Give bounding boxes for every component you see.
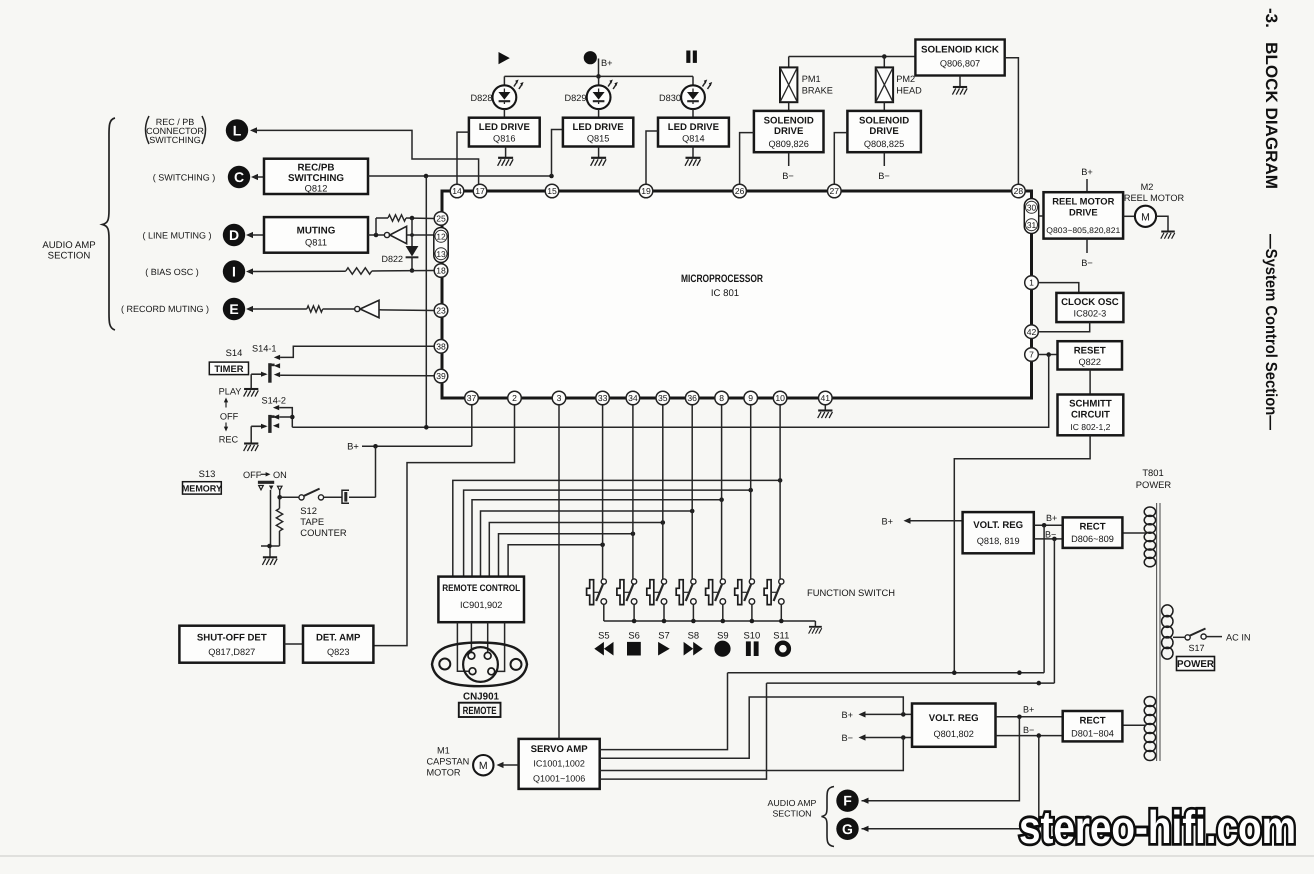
svg-text:D806~809: D806~809 <box>1071 534 1114 544</box>
svg-text:S17: S17 <box>1188 643 1204 653</box>
switch S14-1 pole <box>270 363 275 383</box>
wire D arrow <box>246 232 264 238</box>
label S6 <box>628 630 639 641</box>
svg-text:Q822: Q822 <box>1078 357 1100 367</box>
brace audio amp section left <box>103 118 116 330</box>
svg-text:30: 30 <box>1027 202 1037 212</box>
svg-text:Q818, 819: Q818, 819 <box>977 536 1020 546</box>
svg-text:HEAD: HEAD <box>896 86 922 96</box>
wire reset to schmitt <box>1089 370 1091 395</box>
svg-text:37: 37 <box>467 393 477 403</box>
wire S14-1 common <box>251 372 267 389</box>
node E <box>223 298 245 320</box>
svg-text:25: 25 <box>436 214 446 224</box>
svg-text:28: 28 <box>1014 186 1024 196</box>
wire reel drive to motor <box>1123 215 1135 217</box>
svg-text:AUDIO AMP: AUDIO AMP <box>768 798 817 808</box>
svg-text:D828: D828 <box>471 93 493 103</box>
svg-text:9: 9 <box>748 393 753 403</box>
switch S6 <box>617 405 637 621</box>
pin 9 <box>744 391 758 405</box>
wire switch common bus <box>604 619 816 624</box>
block REC/PB SWITCHING Q812 <box>264 159 368 194</box>
ground function switches <box>809 621 822 634</box>
svg-text:MEMORY: MEMORY <box>182 483 222 493</box>
svg-text:34: 34 <box>628 393 638 403</box>
svg-text:S14-2: S14-2 <box>262 396 287 406</box>
svg-text:41: 41 <box>821 393 831 403</box>
diode D822 <box>406 218 419 273</box>
wire remote bus 1 <box>453 478 783 576</box>
svg-text:S12: S12 <box>300 505 317 516</box>
wire rect D806 to winding <box>1122 532 1146 534</box>
pin 26 <box>733 184 747 198</box>
wire B- stub Q809 <box>782 152 794 181</box>
block LED DRIVE Q816 <box>469 118 540 147</box>
label S9 <box>717 630 728 641</box>
svg-text:B−: B− <box>782 171 794 181</box>
LED D830 <box>659 76 712 117</box>
label CNJ901 <box>463 692 499 703</box>
label B+ arrow lower <box>842 710 913 720</box>
svg-text:S7: S7 <box>658 630 669 641</box>
svg-text:M: M <box>479 760 488 772</box>
label (BIAS OSC) <box>145 267 199 277</box>
wire remote to connector <box>457 622 504 671</box>
label B+ reel <box>1081 167 1093 177</box>
label B- arrow lower <box>842 733 913 743</box>
pin 23 <box>434 304 448 318</box>
node L <box>226 119 248 141</box>
wire S14-2 top contact <box>279 408 294 428</box>
switch S9 <box>706 405 726 621</box>
svg-text:G: G <box>842 821 853 837</box>
ground Q815 <box>591 147 607 166</box>
svg-text:SOLENOID: SOLENOID <box>859 116 909 127</box>
svg-text:42: 42 <box>1027 327 1037 337</box>
label (RECORD MUTING) <box>121 304 209 314</box>
wire I with resistor <box>246 268 434 275</box>
switch S10 <box>735 405 755 621</box>
svg-text:IC901,902: IC901,902 <box>460 600 502 610</box>
svg-text:F: F <box>843 793 852 809</box>
svg-text:Q814: Q814 <box>682 133 704 143</box>
pin 38 <box>434 340 448 354</box>
block SERVO AMP <box>519 739 600 789</box>
svg-text:C: C <box>234 169 244 185</box>
svg-text:13: 13 <box>436 249 446 259</box>
svg-text:18: 18 <box>436 266 446 276</box>
wire rect D801 to winding <box>1122 724 1146 726</box>
svg-text:Q811: Q811 <box>305 238 327 248</box>
block VOLT REG Q801,802 <box>912 704 996 747</box>
svg-text:S14-1: S14-1 <box>252 344 277 354</box>
svg-text:B+: B+ <box>601 58 613 68</box>
wire Q812 out to pin15 net <box>368 174 554 179</box>
block RECT D806~809 <box>1063 517 1123 548</box>
svg-text:CLOCK OSC: CLOCK OSC <box>1061 297 1119 308</box>
wire S14-2 mid contact <box>279 416 292 418</box>
svg-text:( BIAS OSC ): ( BIAS OSC ) <box>145 267 199 277</box>
svg-text:LED DRIVE: LED DRIVE <box>668 122 720 133</box>
svg-text:B+: B+ <box>842 710 854 720</box>
wire S14-2 common <box>251 424 267 444</box>
svg-text:LED DRIVE: LED DRIVE <box>479 122 531 133</box>
svg-text:SECTION: SECTION <box>772 809 811 819</box>
svg-text:D830: D830 <box>659 93 681 103</box>
svg-text:COUNTER: COUNTER <box>300 527 347 538</box>
switch S17 <box>1173 629 1222 641</box>
pin 7 <box>1025 348 1039 362</box>
wire pin 3 to servo <box>558 405 560 739</box>
switch S14-2 contacts <box>273 405 279 428</box>
pin 33 <box>596 391 610 405</box>
svg-text:B−: B− <box>1023 725 1034 735</box>
arrow play up <box>224 398 228 408</box>
svg-text:12: 12 <box>436 231 446 241</box>
svg-text:VOLT. REG: VOLT. REG <box>973 520 1023 531</box>
svg-text:31: 31 <box>1027 220 1037 230</box>
svg-text:33: 33 <box>598 393 608 403</box>
svg-text:SOLENOID KICK: SOLENOID KICK <box>921 45 999 56</box>
wire S14-2 line to pin7 node <box>292 355 1048 430</box>
wire bus x426 down <box>425 176 427 427</box>
label (LINE MUTING) <box>143 230 212 240</box>
LED D828 <box>471 76 524 117</box>
switch S14-2 pole <box>270 415 275 433</box>
ground S14-2 <box>244 444 259 452</box>
svg-text:L: L <box>233 122 242 138</box>
wire servo B+ out1 <box>600 673 728 750</box>
ground Q814 <box>685 147 701 166</box>
motor M1 <box>473 755 493 775</box>
node C <box>228 166 250 188</box>
wire pin 1 to clock osc <box>1038 283 1079 293</box>
pin 19 <box>639 184 653 198</box>
svg-text:( RECORD MUTING ): ( RECORD MUTING ) <box>121 304 209 314</box>
svg-text:S6: S6 <box>628 630 639 641</box>
switch S5 <box>587 405 607 621</box>
wire pin 2 to det amp <box>373 405 514 646</box>
margin title -3. BLOCK DIAGRAM <box>1262 8 1280 189</box>
ground S14-1 <box>244 389 259 397</box>
wire remote bus 4 <box>481 509 695 577</box>
svg-text:S8: S8 <box>688 630 699 641</box>
page edge line <box>0 855 1314 857</box>
icon stop S6 <box>627 642 641 656</box>
svg-text:DET. AMP: DET. AMP <box>316 633 361 644</box>
wire B- net horizontal <box>767 681 1055 686</box>
block SOLENOID DRIVE Q808,825 <box>847 111 921 152</box>
icon eject S11 <box>777 643 789 655</box>
wire remote bus 3 <box>472 497 724 576</box>
ground S13 <box>262 544 277 565</box>
label S13 <box>199 468 216 479</box>
svg-text:CAPSTAN: CAPSTAN <box>427 757 470 767</box>
svg-text:POWER: POWER <box>1177 659 1214 670</box>
icon record S9 <box>714 641 730 657</box>
svg-text:14: 14 <box>452 186 462 196</box>
svg-text:Q803~805,820,821: Q803~805,820,821 <box>1046 226 1121 235</box>
wire pins 30-31 to reel drive <box>1039 215 1044 217</box>
wire remote bus 2 <box>464 488 753 577</box>
svg-text:VOLT. REG: VOLT. REG <box>929 713 979 724</box>
svg-text:BRAKE: BRAKE <box>802 86 833 96</box>
pin 15 <box>545 184 559 198</box>
pins 30-31 capsule <box>1024 199 1038 234</box>
pin 18 <box>434 264 448 278</box>
svg-text:Q809,826: Q809,826 <box>769 139 809 149</box>
wire servo to capstan motor <box>497 762 519 768</box>
svg-text:I: I <box>232 264 236 280</box>
block LED DRIVE Q815 <box>563 118 633 147</box>
svg-text:B−: B− <box>1045 530 1056 540</box>
svg-text:Q815: Q815 <box>587 133 609 143</box>
label AUDIO AMP SECTION bottom <box>768 798 817 819</box>
svg-text:M1: M1 <box>437 746 450 756</box>
wire schmitt to B+ net <box>954 435 1090 672</box>
svg-text:CIRCUIT: CIRCUIT <box>1071 410 1110 421</box>
svg-text:27: 27 <box>830 186 840 196</box>
label M1 CAPSTAN MOTOR <box>427 746 470 778</box>
wire S14-1 to pin 39 <box>280 374 434 377</box>
pin 34 <box>626 391 640 405</box>
svg-text:SHUT-OFF DET: SHUT-OFF DET <box>197 633 267 644</box>
icon ff S8 <box>684 642 703 656</box>
solenoid PM2 HEAD <box>876 57 922 111</box>
switch S11 <box>764 405 784 621</box>
wire S13 pole down <box>270 490 272 546</box>
node G <box>836 818 858 840</box>
svg-text:IC 801: IC 801 <box>711 288 739 299</box>
label S14 <box>226 347 243 358</box>
wire pin 7 to reset <box>1038 352 1057 357</box>
pin 27 <box>828 184 842 198</box>
svg-text:D801~804: D801~804 <box>1071 729 1114 739</box>
svg-text:REC/PB: REC/PB <box>297 163 334 174</box>
pin 3 <box>552 391 566 405</box>
winding primary <box>1162 605 1173 659</box>
svg-text:Q812: Q812 <box>305 184 328 194</box>
watermark stereo-hifi.com <box>1019 801 1296 853</box>
switch S13 <box>258 482 282 490</box>
label S12 TAPE COUNTER <box>300 505 347 538</box>
svg-text:S10: S10 <box>744 630 761 641</box>
connector CNJ901 <box>432 643 527 687</box>
svg-text:SOLENOID: SOLENOID <box>764 116 814 127</box>
svg-text:E: E <box>229 301 238 317</box>
svg-text:1: 1 <box>1029 278 1034 288</box>
wire LED feed <box>504 75 693 77</box>
pin 17 <box>473 184 487 198</box>
wire to pin 23 <box>379 309 434 312</box>
block VOLT REG Q818,819 <box>963 512 1034 553</box>
label FUNCTION SWITCH <box>807 587 895 598</box>
pins 12-13 capsule <box>434 228 448 263</box>
node D <box>223 224 245 246</box>
wire servo out2 <box>600 697 904 758</box>
icon rewind S5 <box>594 642 613 656</box>
wire inverter to pins 12-13 <box>407 233 434 237</box>
svg-text:REEL MOTOR: REEL MOTOR <box>1124 193 1185 203</box>
block LED DRIVE Q814 <box>658 118 729 147</box>
label B+ top <box>601 58 613 68</box>
svg-text:MUTING: MUTING <box>297 226 336 237</box>
svg-text:B−: B− <box>1081 258 1093 268</box>
pin 36 <box>685 391 699 405</box>
block SOLENOID KICK Q806,807 <box>915 40 1004 76</box>
block SCHMITT CIRCUIT IC802-1,2 <box>1058 395 1124 436</box>
svg-text:S5: S5 <box>598 630 609 641</box>
transformer core <box>1157 503 1160 761</box>
wire det to amp <box>284 643 303 645</box>
svg-text:D: D <box>229 227 239 243</box>
svg-text:M2: M2 <box>1141 182 1154 192</box>
label B+ west arrow <box>882 517 963 527</box>
wire L to pin 17 <box>250 127 479 184</box>
svg-text:IC1001,1002: IC1001,1002 <box>533 759 585 769</box>
switch S8 <box>676 405 696 621</box>
svg-text:PM1: PM1 <box>802 74 821 84</box>
pin 14 <box>450 184 464 198</box>
label S14-2 <box>262 396 287 406</box>
svg-text:FUNCTION SWITCH: FUNCTION SWITCH <box>807 587 895 598</box>
svg-text:DRIVE: DRIVE <box>1069 207 1098 218</box>
svg-text:B+: B+ <box>1081 167 1093 177</box>
svg-text:26: 26 <box>735 186 745 196</box>
label T801 POWER <box>1136 467 1172 490</box>
label S11 <box>773 630 789 641</box>
wire E with resistor <box>246 306 355 312</box>
svg-text:PLAY: PLAY <box>219 387 242 397</box>
ground motor M2 <box>1156 216 1175 238</box>
LED D829 <box>565 76 618 117</box>
svg-text:AUDIO AMP: AUDIO AMP <box>42 240 95 251</box>
svg-text:3: 3 <box>557 393 562 403</box>
svg-text:-3. BLOCK DIAGRAM: -3. BLOCK DIAGRAM <box>1262 8 1280 189</box>
wire S14-1 to pin 38 <box>280 346 434 357</box>
winding secondary bottom <box>1144 696 1155 760</box>
margin title System Control Section <box>1262 234 1279 430</box>
svg-text:( SWITCHING ): ( SWITCHING ) <box>153 173 216 183</box>
wire B+ net vertical <box>1043 525 1045 672</box>
svg-text:D822: D822 <box>381 254 403 264</box>
resistor S13 <box>261 497 283 546</box>
wire B+ down to S12 <box>375 446 377 497</box>
label S17 <box>1188 643 1204 653</box>
svg-text:7: 7 <box>1029 350 1034 360</box>
label OFF <box>220 412 239 422</box>
counter coil symbol <box>342 490 376 503</box>
svg-text:IC 802-1,2: IC 802-1,2 <box>1070 422 1110 432</box>
solenoid PM1 BRAKE <box>780 57 833 111</box>
wire B+ net horizontal <box>728 670 1045 675</box>
svg-text:CNJ901: CNJ901 <box>463 692 499 703</box>
label REMOTE boxed <box>459 703 501 717</box>
svg-text:AC IN: AC IN <box>1226 633 1251 643</box>
svg-text:REMOTE: REMOTE <box>463 705 497 717</box>
svg-text:TAPE: TAPE <box>300 516 324 527</box>
wire servo out3 <box>600 738 904 771</box>
svg-text:SWITCHING: SWITCHING <box>149 135 201 145</box>
svg-text:REC: REC <box>219 435 239 445</box>
svg-text:M: M <box>1141 211 1150 223</box>
wire B+ stub <box>596 59 601 79</box>
svg-text:19: 19 <box>641 186 651 196</box>
switch S12 <box>280 489 342 500</box>
label S10 <box>744 630 761 641</box>
brace audio amp bottom <box>822 787 835 847</box>
label S8 <box>688 630 699 641</box>
svg-text:B+: B+ <box>347 441 359 452</box>
pin 35 <box>656 391 670 405</box>
wire pin 27 to drive <box>834 133 847 185</box>
svg-text:10: 10 <box>775 393 785 403</box>
svg-text:SCHMITT: SCHMITT <box>1069 399 1112 410</box>
winding secondary top <box>1144 507 1155 567</box>
block CLOCK OSC IC802-3 <box>1056 293 1123 322</box>
svg-text:15: 15 <box>547 186 557 196</box>
wire B+ to pin 37 <box>362 444 472 449</box>
wire servo B- out4 <box>600 683 767 779</box>
svg-text:RESET: RESET <box>1074 346 1106 357</box>
label POWER boxed <box>1177 657 1215 671</box>
svg-text:36: 36 <box>687 393 697 403</box>
motor M2 <box>1124 182 1185 227</box>
resistor R pin25 <box>376 215 434 235</box>
wire S13 contact down <box>277 491 282 500</box>
svg-text:B+: B+ <box>1023 705 1034 715</box>
svg-text:—System Control Section—: —System Control Section— <box>1262 234 1279 430</box>
pin 42 <box>1025 325 1039 339</box>
svg-text:LED DRIVE: LED DRIVE <box>573 122 625 133</box>
svg-text:S9: S9 <box>717 630 728 641</box>
svg-text:DRIVE: DRIVE <box>869 126 899 137</box>
svg-text:ON: ON <box>273 470 287 480</box>
svg-text:OFF: OFF <box>243 470 262 480</box>
wire kick to pin 28 <box>1005 58 1019 185</box>
label AC IN <box>1226 633 1251 643</box>
svg-text:REEL MOTOR: REEL MOTOR <box>1052 196 1114 207</box>
label (SWITCHING) <box>153 173 216 183</box>
block DET AMP Q823 <box>303 626 373 663</box>
svg-text:Q801,802: Q801,802 <box>934 729 974 739</box>
svg-text:Q816: Q816 <box>493 133 515 143</box>
label S14-1 <box>252 344 277 354</box>
wire pin15 up to LED drive Q815 <box>552 130 563 177</box>
svg-text:REMOTE CONTROL: REMOTE CONTROL <box>442 582 520 593</box>
wire F feed <box>862 717 1020 804</box>
svg-text:B−: B− <box>878 171 890 181</box>
svg-text:T801: T801 <box>1142 467 1163 478</box>
svg-text:B+: B+ <box>882 517 894 527</box>
svg-text:SECTION: SECTION <box>48 251 91 262</box>
svg-text:Q817,D827: Q817,D827 <box>208 647 255 657</box>
block SHUT-OFF DET Q817,D827 <box>179 626 284 663</box>
icon play S7 <box>658 642 670 656</box>
arrow rec down <box>224 423 228 432</box>
svg-text:38: 38 <box>436 341 446 351</box>
icon record <box>584 51 597 64</box>
svg-text:S11: S11 <box>773 630 789 641</box>
wire pin 26 to drive <box>740 133 754 185</box>
block RESET Q822 <box>1058 341 1123 369</box>
wire B- Q801 to rect <box>996 725 1063 738</box>
label MEMORY boxed <box>182 482 222 494</box>
svg-text:POWER: POWER <box>1136 479 1172 490</box>
pin 25 <box>434 212 448 226</box>
label S7 <box>658 630 669 641</box>
